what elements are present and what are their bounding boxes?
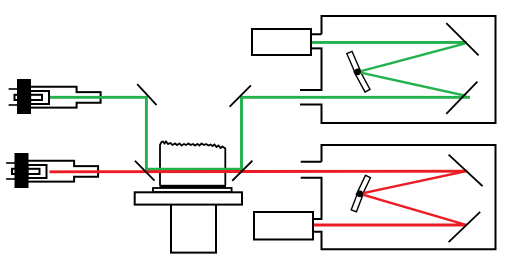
green laser body: [30, 87, 101, 108]
sample holder thin plate: [153, 188, 232, 192]
green beam diagonal mirror-to-chopper A: [358, 72, 466, 96]
mirror M1 top-left: [137, 84, 156, 105]
chamber B enclosure: [301, 145, 496, 249]
red laser inner housing: [28, 165, 47, 178]
green beam to detector A: [311, 41, 467, 44]
green laser prong top: [9, 88, 19, 90]
sample bottom thick edge: [160, 185, 227, 188]
mirror M2 top-right: [230, 85, 251, 106]
chopper A pivot dot: [354, 69, 361, 76]
green laser rod: [15, 95, 43, 100]
stage wide plate: [135, 192, 242, 204]
green laser prong bottom: [9, 104, 19, 106]
mirror M4 bottom-right: [232, 161, 252, 181]
red laser heatsink block: [16, 154, 28, 187]
chamber A mirror bottom: [446, 82, 477, 114]
detector B: [254, 212, 313, 240]
green laser heatsink block: [18, 80, 30, 113]
chopper B upper blade: [356, 175, 370, 196]
green laser assembly: [9, 80, 101, 113]
chamber B mirror top: [449, 155, 483, 187]
red beam diagonal chopper-to-mirror B: [360, 194, 467, 225]
red laser rod: [12, 169, 40, 174]
chamber A enclosure: [300, 16, 496, 123]
red beam main: [50, 170, 468, 174]
red laser prong top: [6, 162, 16, 164]
mirror M3 bottom-left: [135, 161, 155, 181]
sample with rough top: [160, 142, 225, 186]
red laser assembly: [6, 154, 98, 187]
chopper B lower blade: [351, 191, 363, 212]
red beam diagonal mirror-to-chopper B: [360, 171, 466, 194]
chopper A lower blade: [354, 69, 370, 92]
green beam diagonal chopper-to-mirror A: [358, 44, 465, 73]
red laser prong bottom: [6, 178, 16, 180]
green laser inner housing: [30, 91, 49, 104]
red beam to detector B: [313, 224, 467, 227]
chopper B pivot dot: [357, 190, 364, 197]
stage pedestal: [171, 206, 216, 253]
chopper A upper blade: [347, 51, 361, 74]
chamber B mirror bottom: [449, 212, 481, 242]
green beam path: [50, 97, 470, 169]
chamber A mirror top: [446, 23, 478, 55]
red laser body: [28, 161, 99, 182]
detector A: [252, 29, 311, 55]
